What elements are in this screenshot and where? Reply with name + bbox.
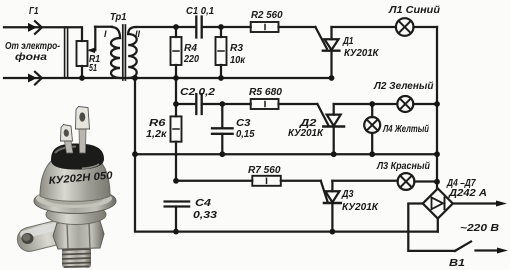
- svg-text:Л4 Желтый: Л4 Желтый: [382, 124, 429, 135]
- svg-text:Л3 Красный: Л3 Красный: [376, 161, 430, 172]
- svg-text:R2 560: R2 560: [251, 10, 283, 21]
- svg-text:фона: фона: [15, 51, 48, 63]
- svg-text:0,15: 0,15: [236, 129, 255, 140]
- svg-text:С2 0,2: С2 0,2: [180, 87, 216, 98]
- svg-text:Тр1: Тр1: [110, 12, 127, 23]
- svg-text:51: 51: [89, 63, 97, 74]
- svg-text:R6: R6: [149, 118, 166, 129]
- svg-text:Д3: Д3: [341, 189, 354, 200]
- svg-text:Д242 А: Д242 А: [448, 188, 487, 199]
- svg-text:220: 220: [183, 54, 199, 65]
- svg-text:1,2к: 1,2к: [146, 129, 167, 140]
- svg-text:R5 680: R5 680: [249, 87, 282, 98]
- svg-text:С1 0,1: С1 0,1: [186, 6, 214, 17]
- svg-text:R3: R3: [230, 43, 243, 54]
- svg-text:С4: С4: [195, 198, 212, 209]
- svg-text:Д1: Д1: [342, 36, 354, 47]
- svg-text:КУ201К: КУ201К: [344, 48, 379, 59]
- svg-text:I: I: [104, 29, 107, 39]
- svg-text:R7 560: R7 560: [248, 165, 281, 176]
- svg-text:0,33: 0,33: [193, 210, 218, 221]
- svg-text:Л2 Зеленый: Л2 Зеленый: [373, 81, 433, 92]
- svg-text:В1: В1: [449, 258, 466, 269]
- svg-text:КУ201К: КУ201К: [342, 202, 379, 213]
- svg-text:Л1 Синий: Л1 Синий: [388, 5, 440, 16]
- svg-text:От электро-: От электро-: [5, 41, 61, 52]
- svg-text:КУ201К: КУ201К: [288, 128, 324, 139]
- svg-text:~220 В: ~220 В: [460, 223, 499, 234]
- svg-text:II: II: [135, 29, 141, 39]
- svg-text:10к: 10к: [230, 55, 246, 66]
- svg-text:С3: С3: [236, 118, 251, 129]
- svg-text:Г1: Г1: [29, 6, 39, 17]
- svg-text:R4: R4: [184, 43, 197, 54]
